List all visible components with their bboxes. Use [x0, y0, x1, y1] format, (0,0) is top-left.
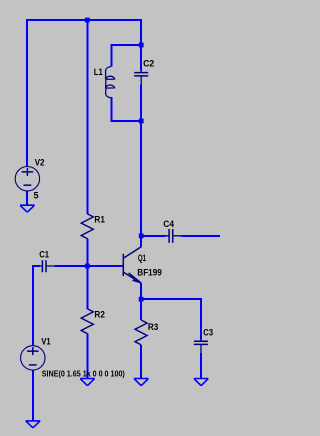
resistor R2	[81, 309, 93, 334]
node collector / C4 junction	[139, 233, 144, 238]
wire V2 to ground	[26, 191, 28, 206]
svg-text:L1: L1	[94, 67, 103, 77]
node emitter junction	[139, 297, 144, 302]
ground (V2)	[20, 205, 35, 212]
svg-text:R2: R2	[94, 309, 105, 319]
svg-text:C1: C1	[39, 249, 49, 259]
wire right rail upper	[140, 19, 142, 70]
svg-text:Q1: Q1	[138, 253, 146, 263]
wire top rail	[26, 19, 142, 21]
wire C1 corner to V1	[32, 265, 34, 346]
node A top rail / R1 junction	[85, 18, 90, 23]
ground (R2)	[80, 379, 95, 386]
transistor Q1 (NPN BF199)	[123, 247, 141, 284]
wire L1 bottom lead	[111, 97, 113, 122]
ground (C3)	[194, 379, 209, 386]
wire C4 left	[141, 235, 165, 237]
node tank top junction	[139, 43, 144, 48]
wire emitter node to R3	[140, 299, 142, 320]
resistor R3	[135, 320, 147, 345]
wire R3 to ground	[140, 345, 142, 379]
node tank bottom junction	[139, 119, 144, 124]
wire base node to Q1 base	[87, 265, 122, 267]
svg-text:C2: C2	[143, 58, 154, 68]
ground (R3)	[134, 379, 149, 386]
capacitor C2	[134, 70, 148, 85]
ground (V1)	[26, 421, 41, 428]
wire C3 top	[200, 298, 202, 339]
wire L1 top lead	[111, 44, 113, 66]
wire right rail lower (C2 to collector)	[140, 84, 142, 246]
capacitor C1	[40, 260, 55, 272]
node base junction	[85, 264, 90, 269]
capacitor C4	[165, 229, 181, 243]
voltage source V2	[15, 167, 39, 191]
wire C1 right	[55, 265, 89, 267]
svg-text:R1: R1	[94, 214, 105, 224]
wire V1 to ground	[32, 370, 34, 421]
wire C4 right	[181, 235, 220, 237]
svg-text:V1: V1	[41, 337, 50, 347]
wire R1 to R2 through base node	[86, 239, 88, 309]
resistor R1	[81, 214, 93, 239]
svg-text:5: 5	[34, 191, 39, 201]
wire emitter down	[140, 283, 142, 300]
wire C3 to ground	[200, 353, 202, 379]
svg-text:SINE(0 1.65 1k 0 0 0 100): SINE(0 1.65 1k 0 0 0 100)	[42, 369, 125, 378]
svg-text:C3: C3	[203, 328, 213, 338]
wire R1 branch down	[86, 19, 88, 214]
inductor L1	[106, 67, 115, 98]
svg-text:C4: C4	[163, 219, 174, 229]
svg-text:R3: R3	[148, 322, 158, 332]
wire tank top	[111, 44, 143, 46]
wire R2 to ground	[86, 334, 88, 379]
wire tank bottom	[111, 120, 143, 122]
wire emitter row to C3	[141, 298, 202, 300]
capacitor C3	[194, 339, 208, 353]
voltage source V1	[21, 346, 45, 370]
wire C1 left	[33, 265, 40, 267]
wire V2 branch down	[26, 19, 28, 167]
svg-text:V2: V2	[35, 157, 45, 167]
svg-text:BF199: BF199	[137, 267, 162, 277]
